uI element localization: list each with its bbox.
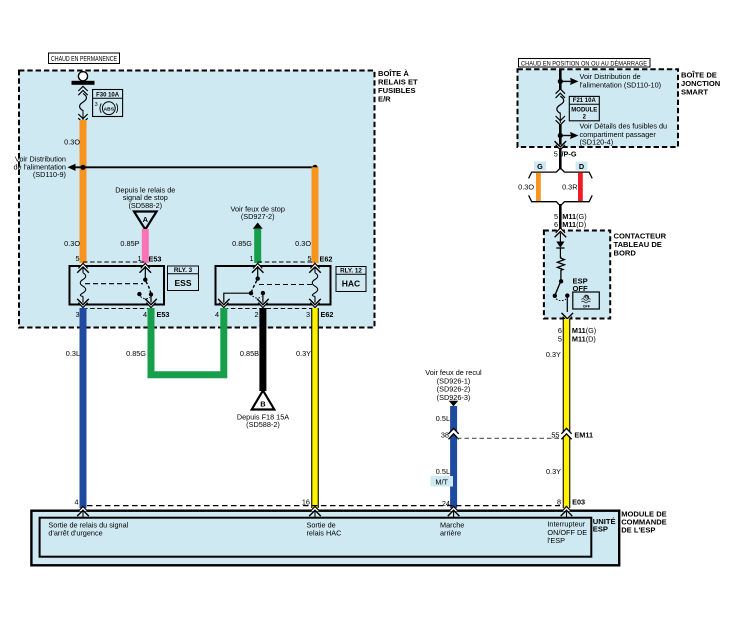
- wire 0.85G green: feux de stop to relay HAC pin 1: [254, 229, 261, 264]
- svg-text:RLY. 12: RLY. 12: [340, 268, 362, 275]
- relay ESS switch (pin1 to pin4): [137, 266, 153, 305]
- svg-text:0.3Y: 0.3Y: [546, 350, 561, 359]
- svg-text:E62: E62: [321, 310, 334, 319]
- pin chevrons: ESS pin 4 (bottom): [145, 299, 157, 308]
- svg-text:4: 4: [74, 498, 78, 507]
- connector arrow: Voir feux de stop (SD927-2): [231, 205, 285, 229]
- svg-text:E/R: E/R: [378, 95, 391, 104]
- pin 5 label M11(D) below box: [558, 334, 596, 343]
- svg-text:0.3O: 0.3O: [64, 138, 80, 147]
- svg-text:BORD: BORD: [614, 248, 637, 257]
- box: BOITE A RELAIS ET FUSIBLES E/R (dashed enclosure): [19, 71, 375, 328]
- svg-text:1: 1: [249, 254, 253, 263]
- svg-text:0.5L: 0.5L: [436, 467, 450, 476]
- connector arrow: Voir feux de recul (SD926): [425, 368, 482, 406]
- connector E53 bottom dashed pin row: [83, 308, 151, 310]
- label: BOITE DE JONCTION SMART: [681, 71, 720, 97]
- label G (gauche): [534, 162, 546, 171]
- svg-text:E53: E53: [157, 310, 170, 319]
- pin chevrons: ESS pin 3 (bottom): [77, 299, 89, 308]
- arrow: Voir Distribution de l'alimentation (SD110-9): [13, 155, 75, 180]
- relay RLY.3 ESS body: [70, 266, 165, 305]
- fuse F21 10A (fusible link symbol): [556, 89, 565, 125]
- module: MODULE DE COMMANDE DE L'ESP outer box: [31, 511, 619, 566]
- wire 0.5L blue: feux de recul to ESP module pin 24: [450, 406, 457, 508]
- pin 6 label M11(D): [554, 220, 586, 229]
- pin chevrons: HAC pin 4 (bottom): [218, 299, 230, 308]
- svg-text:4: 4: [143, 310, 147, 319]
- pin chevron: module pin 4: [77, 506, 89, 518]
- svg-text:ABS: ABS: [104, 106, 115, 112]
- relay HAC mechanical link (dashed): [259, 284, 313, 286]
- svg-text:(SD926-3): (SD926-3): [437, 393, 471, 402]
- label: BOITE A RELAIS ET FUSIBLES E/R: [378, 69, 418, 104]
- svg-text:0.5L: 0.5L: [436, 414, 450, 423]
- svg-text:4: 4: [215, 310, 219, 319]
- svg-text:ESP: ESP: [593, 525, 608, 534]
- switch ESP OFF: [553, 279, 570, 312]
- svg-text:SMART: SMART: [681, 88, 708, 97]
- svg-text:F21 10A: F21 10A: [573, 98, 597, 104]
- connector triangle B: Depuis F18 15A (SD588-2): [237, 391, 289, 430]
- svg-text:0.3Y: 0.3Y: [296, 349, 311, 358]
- svg-text:G: G: [537, 162, 543, 171]
- relay ESS mechanical link (dashed): [85, 283, 143, 285]
- relay ESS coil: [80, 267, 85, 304]
- label box RLY.3 / ESS: [168, 266, 199, 291]
- svg-text:5: 5: [558, 334, 562, 343]
- svg-text:M11(D): M11(D): [562, 220, 586, 229]
- label: Marche arriere: [440, 521, 464, 538]
- pin chevrons: HAC pin 3 (bottom): [309, 299, 321, 308]
- inline connector chevrons pin 55: [561, 428, 572, 439]
- pin 5 label M11(G): [554, 212, 587, 221]
- wire 0.3O orange: junction to relay HAC pin 5: [312, 167, 319, 263]
- wire 0.3Y yellow: relay HAC pin 3 to ESP module pin 16: [311, 308, 319, 508]
- svg-text:arrière: arrière: [440, 528, 461, 537]
- label: UNITE ESP: [593, 517, 616, 534]
- pin chevron: module pin 16: [309, 506, 321, 518]
- svg-text:3: 3: [95, 102, 98, 108]
- arrow: Voir Distribution de l'alimentation (SD110-10): [560, 72, 661, 89]
- power node: battery feed circle and bus bar: [72, 72, 95, 85]
- svg-text:F30 10A: F30 10A: [96, 93, 120, 99]
- svg-text:16: 16: [302, 498, 310, 507]
- wire 0.3L blue: relay ESS pin 3 to ESP module pin 4: [80, 308, 87, 508]
- label M/T: [431, 476, 454, 487]
- wire 0.3R red (D branch): [578, 173, 583, 201]
- inline connector chevrons pin 38: [448, 428, 459, 439]
- relay RLY.12 HAC body: [216, 266, 331, 305]
- svg-text:DE L'ESP: DE L'ESP: [621, 526, 655, 535]
- svg-text:B: B: [260, 400, 266, 409]
- svg-text:OFF: OFF: [583, 304, 591, 308]
- pin chevron: module pin 24: [448, 506, 460, 518]
- pin chevrons: ESS pin 1: [140, 263, 152, 272]
- svg-text:d'arrêt d'urgence: d'arrêt d'urgence: [48, 528, 102, 537]
- svg-text:6: 6: [554, 220, 558, 229]
- pin chevrons: contacteur exit: [562, 313, 574, 322]
- node: junction to SD120-4: [558, 133, 563, 138]
- module: UNITE ESP inner box: [40, 518, 592, 557]
- svg-text:ESS: ESS: [174, 278, 191, 288]
- box: BOITE DE JONCTION SMART (dashed enclosure): [518, 69, 679, 147]
- svg-text:0.3O: 0.3O: [295, 239, 311, 248]
- label: CONTACTEUR TABLEAU DE BORD: [614, 231, 667, 257]
- node: junction top of HAC orange feed: [312, 165, 317, 170]
- wire 0.3O orange: fuse F30 to relay ESS pin 5: [80, 120, 87, 263]
- splice: G/D branch bottom: [529, 195, 593, 205]
- svg-text:0.3Y: 0.3Y: [546, 467, 561, 476]
- connector triangle A: Depuis le relais de signal de stop (SD588-2): [115, 186, 175, 230]
- pin chevrons: ESS pin 5: [77, 263, 89, 272]
- svg-text:1: 1: [137, 254, 141, 263]
- pin chevrons: HAC pin 5: [309, 263, 321, 272]
- svg-text:3: 3: [306, 310, 310, 319]
- label D (droite): [576, 162, 588, 171]
- svg-text:EM11: EM11: [574, 431, 593, 440]
- svg-text:l'alimentation (SD110-10): l'alimentation (SD110-10): [580, 80, 662, 89]
- svg-text:38: 38: [441, 431, 449, 440]
- svg-text:E53: E53: [149, 255, 162, 264]
- svg-text:0.85P: 0.85P: [120, 239, 139, 248]
- pin chevrons: contacteur entry: [555, 228, 567, 242]
- label: Sortie de relais du signal d'arret d'urgence: [48, 521, 128, 538]
- pin chevron: module pin 8: [561, 506, 573, 518]
- box: CONTACTEUR TABLEAU DE BORD (dashed enclosure): [544, 231, 610, 319]
- pin chevrons: I/P-G exit: [555, 141, 567, 150]
- splice: G/D branch top: [529, 168, 593, 178]
- svg-text:0.3L: 0.3L: [66, 349, 80, 358]
- svg-text:E03: E03: [572, 498, 585, 507]
- svg-text:5: 5: [307, 254, 311, 263]
- svg-text:MODULE: MODULE: [571, 108, 597, 114]
- svg-text:CHAUD EN PERMANENCE: CHAUD EN PERMANENCE: [51, 54, 117, 63]
- connector E62 bottom dashed pin row: [224, 308, 315, 310]
- svg-text:l'ESP: l'ESP: [547, 536, 565, 545]
- connector E03 dashed pin row: [87, 505, 560, 507]
- svg-text:(SD927-2): (SD927-2): [241, 212, 275, 221]
- svg-text:3: 3: [75, 310, 79, 319]
- svg-text:0.3R: 0.3R: [562, 183, 577, 192]
- svg-text:5: 5: [75, 254, 79, 263]
- wire 0.85B black: relay HAC pin 2 to triangle B: [259, 308, 266, 391]
- pin chevrons: HAC pin 1: [252, 263, 264, 272]
- wire: black jumper from 0.3O junction to HAC feed: [70, 166, 315, 168]
- resistor (zigzag): [557, 257, 564, 280]
- icon box: ESP OFF indicator: [573, 292, 600, 309]
- label ESP OFF: [573, 277, 589, 293]
- label: Sortie de relais HAC: [307, 521, 342, 538]
- svg-text:0.85B: 0.85B: [240, 349, 259, 358]
- svg-text:E62: E62: [320, 255, 333, 264]
- relay HAC switch (pin1 to pin4 / pin2): [224, 266, 265, 305]
- wire 0.85P pink: triangle A to relay ESS pin 1: [142, 229, 149, 263]
- diode (cathode down): [556, 242, 564, 259]
- pin 6 label M11(G) below box: [558, 326, 596, 335]
- connector E62 top dashed pin row: [258, 261, 315, 263]
- arrow: Voir Details des fusibles du compartiment passager (SD120-4): [560, 121, 667, 146]
- connector E53 top dashed pin row: [83, 261, 145, 263]
- svg-text:0.85G: 0.85G: [232, 239, 252, 248]
- svg-text:HAC: HAC: [342, 279, 360, 289]
- svg-text:0.3O: 0.3O: [518, 183, 534, 192]
- fuse F21 label box: [569, 96, 599, 120]
- svg-text:0.85G: 0.85G: [126, 349, 146, 358]
- svg-text:5: 5: [554, 149, 558, 158]
- node: junction on wire 0.3O: [80, 165, 85, 170]
- svg-text:RLY. 3: RLY. 3: [174, 267, 193, 274]
- wire: I/P-G to G/D split: [559, 148, 562, 170]
- svg-text:55: 55: [551, 431, 559, 440]
- svg-text:24: 24: [442, 499, 450, 508]
- svg-text:(SD588-2): (SD588-2): [246, 420, 280, 429]
- wire 0.85G green: relay ESS pin 4 to relay HAC pin 4 (U-shape): [151, 308, 224, 375]
- pin chevrons: HAC pin 2 (bottom): [257, 299, 269, 308]
- wire: fuse F21 to I/P-G exit: [559, 124, 562, 147]
- svg-text:I/P-G: I/P-G: [560, 149, 577, 158]
- svg-text:2: 2: [254, 310, 258, 319]
- connector EM11 dashed link: [457, 437, 562, 439]
- wire 0.3Y yellow: contacteur to ESP module pin 8: [563, 319, 571, 508]
- svg-text:(SD120-4): (SD120-4): [580, 138, 614, 147]
- svg-text:M11(D): M11(D): [572, 334, 596, 343]
- wire: G/D merge to contacteur box: [559, 204, 562, 232]
- wire: ignition feed inside smart box: [559, 69, 562, 90]
- label: Interrupteur ON/OFF de l'ESP: [547, 520, 587, 546]
- svg-text:M/T: M/T: [435, 477, 448, 486]
- node: junction to SD110-10: [558, 79, 563, 84]
- svg-text:(SD110-9): (SD110-9): [33, 170, 66, 179]
- svg-text:(SD588-2): (SD588-2): [128, 201, 162, 210]
- label box RLY.12 / HAC: [336, 267, 366, 292]
- label: CHAUD EN PERMANENCE: [49, 53, 120, 64]
- svg-text:A: A: [143, 215, 149, 224]
- label: MODULE DE COMMANDE DE L'ESP: [621, 510, 667, 535]
- svg-text:D: D: [579, 162, 584, 171]
- fuse F30 10A label box with ABS icon: [93, 90, 123, 117]
- fuse F30 10A (fusible link symbol): [78, 86, 87, 123]
- relay HAC coil: [312, 267, 317, 304]
- wire 0.3O orange (G branch): [536, 173, 541, 201]
- label: CHAUD EN POSITION ON OU AU DEMARRAGE: [519, 59, 651, 68]
- svg-text:0.3O: 0.3O: [64, 239, 80, 248]
- svg-text:relais HAC: relais HAC: [307, 528, 342, 537]
- svg-text:CHAUD EN POSITION ON OU AU DÉM: CHAUD EN POSITION ON OU AU DÉMARRAGE: [521, 60, 647, 67]
